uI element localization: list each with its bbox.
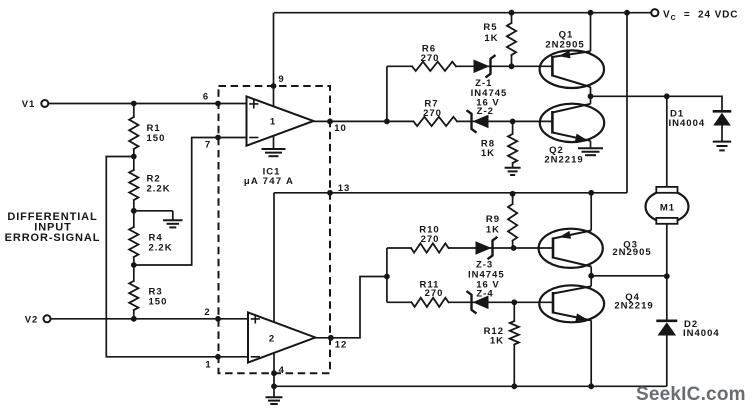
- resistor R8: [508, 134, 517, 163]
- resistor R8 stems: [512, 121, 514, 134]
- junction V2/R3: [131, 316, 137, 322]
- svg-text:1K: 1K: [486, 225, 500, 236]
- junction rail at Q4 emitter: [588, 383, 594, 389]
- wire tee riser to R6: [386, 66, 388, 121]
- svg-text:VC = 24 VDC: VC = 24 VDC: [663, 10, 738, 23]
- svg-text:1K: 1K: [484, 33, 498, 44]
- svg-text:1: 1: [270, 117, 276, 128]
- resistor R3: [129, 281, 138, 310]
- terminal V2: [44, 315, 51, 322]
- node pin 7: [215, 135, 221, 141]
- ground stem op-amp1: [273, 136, 275, 149]
- resistor R12 stems: [513, 302, 515, 321]
- svg-text:V2: V2: [25, 314, 39, 325]
- junction R12/Z-4: [511, 299, 517, 305]
- wire V2 to op-amp2 + input: [51, 318, 249, 320]
- transistor Q3 2N2905: [539, 229, 603, 268]
- junction R4/R3: [131, 262, 137, 268]
- junction V1/R1: [131, 101, 137, 107]
- junction rail at op-amp2 ground: [271, 383, 277, 389]
- wire pin13 supply line: [274, 192, 627, 194]
- wire op-amp2 V+ stem: [273, 193, 275, 323]
- zener Z-3: [476, 241, 492, 255]
- svg-text:M1: M1: [660, 202, 675, 213]
- op-amp U1B triangle: [248, 312, 315, 362]
- junction output A / motor: [664, 93, 670, 99]
- svg-text:150: 150: [147, 133, 166, 144]
- ground below op-amp1: [262, 148, 286, 150]
- junction Q3/Q4 collectors: [588, 273, 594, 279]
- wire R6 to Q1 base: [456, 65, 552, 67]
- svg-text:270: 270: [423, 108, 442, 119]
- junction Q1/Q2 collectors: [588, 93, 594, 99]
- wire D1 drop: [721, 96, 723, 111]
- svg-text:Z-2: Z-2: [477, 106, 494, 117]
- resistor R4: [129, 227, 138, 257]
- svg-text:ERROR-SIGNAL: ERROR-SIGNAL: [5, 232, 101, 244]
- wire R10 left stem: [387, 247, 411, 249]
- diode D1 IN4004: [713, 110, 732, 113]
- wire tee riser R10-R11: [386, 248, 388, 302]
- wire R11 left stem: [387, 301, 412, 303]
- svg-text:2N2219: 2N2219: [614, 301, 653, 312]
- resistor R11: [412, 298, 449, 307]
- wire ground rail: [274, 385, 667, 387]
- svg-text:μA 747 A: μA 747 A: [244, 176, 294, 187]
- junction on top rail at right riser: [624, 10, 630, 16]
- zener Z-4: [473, 296, 489, 310]
- junction R9/Z-3: [511, 245, 517, 251]
- svg-text:1K: 1K: [490, 335, 504, 346]
- wire R2 stems: [133, 157, 135, 171]
- svg-text:270: 270: [425, 288, 444, 299]
- svg-text:1: 1: [205, 360, 211, 371]
- zener Z-1: [474, 60, 490, 74]
- wire op-amp2 V- stem: [273, 353, 275, 386]
- svg-text:2: 2: [269, 333, 275, 344]
- wire R2 junction to ground: [134, 210, 173, 212]
- junction on top rail at Q1 emitter: [588, 10, 594, 16]
- svg-text:2N2219: 2N2219: [544, 154, 583, 165]
- op-amp U1B minus input: [252, 356, 260, 358]
- terminal Vc: [651, 9, 658, 16]
- wire D2 drop: [666, 276, 668, 321]
- op-amp U1A plus input: [250, 100, 258, 108]
- node pin 13: [327, 190, 333, 196]
- diode D2 IN4004: [656, 319, 677, 322]
- junction R9 top: [510, 191, 516, 197]
- resistor R5 stems: [511, 13, 513, 23]
- node pin 1: [215, 354, 221, 360]
- wire R3 stems: [133, 265, 135, 281]
- svg-text:2.2K: 2.2K: [149, 243, 173, 254]
- junction output B / motor / D2: [664, 273, 670, 279]
- svg-text:1K: 1K: [481, 148, 495, 159]
- node pin 4: [271, 370, 277, 376]
- motor M1: [646, 191, 689, 223]
- wire pin7 from R4 junction riser: [134, 138, 247, 266]
- junction tee R10/R11: [384, 274, 390, 280]
- resistor R5: [507, 23, 516, 55]
- wire feedback R1-R2 junction to pin 1: [106, 157, 248, 357]
- ground below Q2 emitter: [578, 147, 603, 149]
- node pin 6: [215, 101, 221, 107]
- svg-text:150: 150: [149, 297, 168, 308]
- svg-text:6: 6: [203, 92, 209, 103]
- op-amp U1A minus input: [250, 137, 258, 139]
- svg-text:V1: V1: [22, 99, 36, 110]
- resistor R1: [129, 117, 138, 149]
- svg-text:2.2K: 2.2K: [147, 184, 171, 195]
- svg-text:13: 13: [338, 183, 351, 194]
- junction on top rail at R5: [509, 10, 515, 16]
- svg-text:4: 4: [279, 365, 285, 376]
- resistor R6: [412, 62, 456, 71]
- transistor Q1 2N2905: [540, 50, 604, 88]
- node pin 10: [327, 119, 333, 125]
- op-amp U1B plus input: [252, 315, 260, 323]
- junction rail at R12: [511, 383, 517, 389]
- transistor Q4 2N2219: [539, 285, 604, 322]
- svg-text:9: 9: [278, 74, 284, 85]
- svg-text:SeekIC.com: SeekIC.com: [636, 384, 746, 405]
- svg-text:10: 10: [334, 123, 347, 134]
- junction R1/R2 feedback: [131, 154, 137, 160]
- terminal V1: [41, 100, 48, 107]
- resistor R2: [129, 170, 138, 200]
- resistor R12: [510, 321, 519, 345]
- svg-text:12: 12: [335, 339, 348, 350]
- svg-text:Z-4: Z-4: [476, 288, 493, 299]
- svg-text:IN4004: IN4004: [683, 328, 720, 339]
- op-amp U1A triangle: [247, 96, 314, 145]
- svg-text:270: 270: [421, 53, 440, 64]
- svg-text:2: 2: [204, 307, 210, 318]
- ground at bottom rail: [266, 396, 283, 398]
- node pin 9: [271, 83, 277, 89]
- wire motor bottom stem: [666, 224, 668, 276]
- svg-text:7: 7: [205, 140, 211, 151]
- wire R4 stems: [133, 211, 135, 227]
- wire output A to D1: [591, 95, 723, 97]
- wire output B to motor bottom: [591, 275, 667, 277]
- zener Z-2: [473, 115, 489, 129]
- svg-text:R5: R5: [483, 22, 497, 33]
- node pin 12: [328, 335, 334, 341]
- wire R6 left stem: [387, 65, 412, 67]
- svg-text:2N2905: 2N2905: [545, 40, 584, 51]
- wire op-amp1 output to Q2 base: [314, 120, 414, 122]
- svg-text:IN4004: IN4004: [669, 118, 706, 129]
- junction Q3 emitter riser: [588, 190, 594, 196]
- IC1 package dashed box: [219, 86, 331, 373]
- wire rail ground stem: [273, 386, 275, 397]
- wire R10 to Q3 base: [449, 247, 554, 249]
- svg-text:270: 270: [421, 234, 440, 245]
- wire +24V right riser: [626, 13, 628, 193]
- ground below R8: [505, 167, 521, 169]
- wire op-amp2 output jog: [315, 277, 387, 338]
- junction R2/R4: [131, 208, 137, 214]
- svg-text:2N2905: 2N2905: [612, 247, 651, 258]
- junction R5/Z-1: [509, 63, 515, 69]
- resistor R9 stems: [512, 193, 514, 204]
- wire pin9 riser: [273, 13, 275, 107]
- wire +24V top rail: [274, 12, 651, 14]
- junction R8/Z-2: [510, 119, 516, 125]
- wire motor top stem: [666, 96, 668, 187]
- wire R11 to Q4 base: [449, 301, 554, 303]
- wire R1 stems: [133, 104, 135, 118]
- svg-text:R9: R9: [486, 214, 500, 225]
- ground at R2/R4 junction: [163, 219, 183, 221]
- junction tee R6/R7: [384, 119, 390, 125]
- wire V1 to op-amp1 + input: [48, 103, 246, 105]
- resistor R7 wire to Q2 base: [457, 120, 552, 122]
- resistor R10: [411, 243, 449, 252]
- ground below D1: [713, 141, 732, 143]
- transistor Q2 2N2219: [540, 104, 604, 142]
- node pin 2: [215, 316, 221, 322]
- resistor R9: [508, 204, 517, 241]
- wire R7 section: [414, 117, 458, 126]
